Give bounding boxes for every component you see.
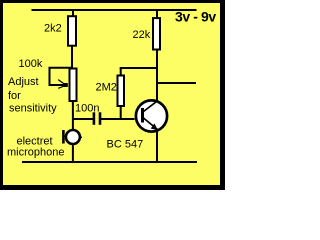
svg-text:Adjust: Adjust: [8, 76, 39, 88]
wire: mic bottom lead: [72, 145, 74, 162]
resistor R1 2k2: [68, 16, 76, 46]
wire: capacitor right plate to base node: [101, 118, 135, 120]
potentiometer wiper arrow feathers: [58, 80, 64, 84]
svg-text:2k2: 2k2: [44, 23, 62, 35]
transistor Q1 BC547 body: [136, 100, 167, 131]
wire: 2M2 top to collector line: [120, 67, 157, 69]
svg-text:sensitivity: sensitivity: [9, 103, 57, 115]
electret microphone body: [66, 130, 80, 144]
potentiometer VR1 100k body: [70, 69, 77, 102]
svg-text:BC 547: BC 547: [107, 139, 144, 151]
wire: pot wiper loop: [50, 68, 72, 85]
svg-text:100n: 100n: [75, 103, 99, 115]
svg-text:3v - 9v: 3v - 9v: [175, 9, 216, 25]
wire: 22k bottom to collector: [156, 50, 158, 103]
svg-text:for: for: [8, 90, 21, 102]
wire: stub rail to R 22k: [156, 10, 158, 19]
svg-text:22k: 22k: [133, 29, 151, 41]
svg-text:2M2: 2M2: [96, 82, 117, 94]
wire: top supply rail: [32, 9, 197, 11]
potentiometer wiper arrow: [64, 83, 68, 87]
electret microphone plate bar: [62, 130, 65, 144]
transistor emitter stroke: [144, 118, 158, 130]
capacitor C1 100n left plate: [93, 112, 96, 125]
electret microphone right nub: [80, 136, 83, 138]
wire: collector output stub: [156, 82, 196, 84]
svg-text:microphone: microphone: [7, 147, 64, 159]
transistor emitter arrowhead: [151, 123, 158, 130]
transistor collector stroke: [144, 101, 158, 112]
transistor base bar: [141, 108, 144, 123]
resistor R3 2M2: [118, 76, 125, 107]
svg-text:100k: 100k: [19, 58, 43, 70]
wire: pot bottom down to microphone: [72, 101, 74, 130]
border frame: [0, 0, 225, 190]
wire: stub rail to R 2k2: [72, 10, 74, 17]
capacitor C1 100n right plate: [99, 112, 102, 125]
wire: emitter down to ground rail: [156, 131, 158, 162]
wire: bottom ground rail: [22, 161, 197, 163]
wire: 2k2 bottom to pot top: [71, 46, 73, 69]
wire: 2M2 top stub: [120, 68, 122, 76]
wire: 2M2 bottom stub to base node: [120, 106, 122, 119]
resistor R2 22k: [153, 18, 160, 49]
wire: node to capacitor left plate: [72, 118, 93, 120]
